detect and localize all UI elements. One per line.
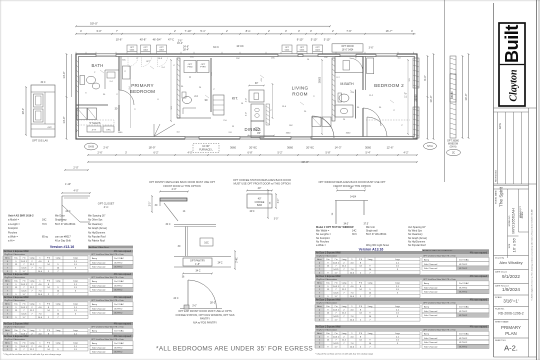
svg-text:Air Door 1 Exposed Wall: Air Door 1 Exposed Wall — [4, 273, 29, 276]
svg-text:W-TH#2: W-TH#2 — [114, 285, 123, 287]
svg-text:OPT Unit/Dmr Main Wall 7/8 x 7: OPT Unit/Dmr Main Wall 7/8 x 7min — [91, 338, 125, 341]
svg-text:1/9/2024: 1/9/2024 — [502, 287, 520, 292]
svg-text:36080: 36080 — [450, 91, 454, 99]
svg-text:W: W — [232, 126, 234, 128]
svg-text:a Hi =: a Hi = — [8, 240, 15, 243]
svg-text:a Model =: a Model = — [8, 219, 20, 222]
clayton built logo box — [499, 23, 525, 106]
furnace dashed box — [193, 144, 219, 153]
svg-text:W-TH#2: W-TH#2 — [459, 292, 468, 294]
svg-text:Chg/Unit Observation: Chg/Unit Observation — [4, 299, 26, 302]
svg-text:BATH: BATH — [91, 63, 103, 68]
svg-text:RD-2006-1296-2: RD-2006-1296-2 — [498, 312, 523, 316]
svg-text:Del / DAC: Del / DAC — [459, 306, 469, 309]
svg-text:2'-6": 2'-6" — [98, 152, 103, 155]
svg-text:W-TH#2: W-TH#2 — [459, 338, 468, 340]
svg-text:Drawn By: Drawn By — [495, 257, 505, 260]
svg-text:SH B: SH B — [88, 146, 94, 149]
svg-text:34'-C: 34'-C — [213, 46, 219, 49]
svg-text:12'-6": 12'-6" — [387, 145, 394, 149]
svg-text:3C: 3C — [452, 152, 455, 155]
svg-text:DINING: DINING — [244, 127, 260, 132]
svg-text:20C: 20C — [271, 58, 275, 60]
svg-text:OPT Unit/Dmr Main Wall 7/8 x 7: OPT Unit/Dmr Main Wall 7/8 x 7min — [91, 276, 125, 279]
svg-text:4'-C: 4'-C — [104, 205, 109, 209]
svg-text:5'-1": 5'-1" — [200, 29, 205, 33]
svg-text:* Chg of the air flow are for: * Chg of the air flow are for ch with ab… — [315, 353, 374, 356]
svg-text:Air Door 1 Exposed Wall: Air Door 1 Exposed Wall — [4, 335, 29, 338]
svg-text:No Lengths =: No Lengths = — [316, 233, 331, 236]
bottom dim left stub — [65, 169, 88, 171]
svg-text:OPT: OPT — [315, 47, 320, 49]
svg-text:16'-0": 16'-0" — [464, 93, 468, 100]
svg-text:OPT Unit/Dmr Main Wall 7/8 x 7: OPT Unit/Dmr Main Wall 7/8 x 7min — [91, 299, 125, 302]
svg-text:a Wide =: a Wide = — [316, 244, 326, 247]
svg-text:a Wide =: a Wide = — [8, 236, 18, 239]
svg-text:14.3 1: 14.3 1 — [21, 284, 28, 286]
opt pwd / opt ptry boxes — [184, 61, 196, 73]
mbath door arc — [363, 108, 381, 126]
svg-text:3'-0": 3'-0" — [274, 219, 279, 221]
bottom wall window symbols — [240, 136, 260, 139]
svg-text:Del / DAC: Del / DAC — [114, 280, 124, 283]
left wall hatch — [76, 60, 79, 63]
kitchen 30in dim — [249, 85, 264, 87]
svg-text:No Footprint: No Footprint — [316, 237, 330, 240]
svg-text:14.3 1: 14.3 1 — [21, 307, 28, 309]
svg-text:Del / DAC: Del / DAC — [114, 257, 124, 260]
svg-text:6'-8": 6'-8" — [248, 152, 253, 155]
bath counter — [105, 70, 119, 89]
svg-text:U: U — [189, 76, 191, 79]
svg-text:Del / DAC: Del / DAC — [459, 259, 469, 262]
svg-text:840: 840 — [519, 211, 524, 218]
svg-text:BEDROOM: BEDROOM — [130, 89, 156, 94]
kitchen range/counter — [251, 104, 264, 121]
svg-text:2'-0": 2'-0" — [150, 202, 152, 207]
svg-text:Sub Charcoal: Sub Charcoal — [92, 307, 106, 310]
svg-text:24'C: 24'C — [218, 262, 223, 265]
left vertical dims — [66, 54, 68, 139]
top dimension row 1 (50 ft overall) — [76, 25, 330, 27]
svg-text:can use #8017: can use #8017 — [55, 236, 71, 239]
svg-text:Chg/Unit Observation: Chg/Unit Observation — [316, 278, 338, 281]
svg-text:Min Width =: Min Width = — [316, 230, 330, 233]
svg-text:8'-C: 8'-C — [246, 29, 251, 33]
svg-text:4'-0": 4'-0" — [188, 152, 193, 155]
mbath/bed2 wall — [362, 57, 364, 91]
svg-text:Chg/Unit Observation: Chg/Unit Observation — [316, 329, 338, 332]
svg-text:KIT.: KIT. — [232, 97, 238, 101]
svg-text:5'-2": 5'-2" — [278, 152, 283, 155]
svg-text:20'-9C: 20'-9C — [249, 145, 257, 149]
opt dutch window detail — [337, 190, 365, 192]
svg-text:36C: 36C — [289, 125, 293, 127]
svg-text:Air Door 1 Exposed Wall: Air Door 1 Exposed Wall — [4, 250, 29, 253]
svg-text:5'-8": 5'-8" — [326, 152, 331, 155]
svg-text:Min Unit: Min Unit — [366, 226, 375, 229]
svg-text:Footprint: Footprint — [8, 227, 18, 230]
svg-text:© 2022 Clayton Homes Inc. This: © 2022 Clayton Homes Inc. This drawing c… — [531, 209, 534, 300]
svg-text:18'-9": 18'-9" — [149, 145, 156, 149]
svg-text:3660: 3660 — [230, 145, 236, 149]
bath/bedroom partition wall — [118, 57, 120, 91]
logo divider — [500, 64, 524, 66]
right table top band (right subtable) — [422, 249, 489, 252]
top wall window symbols — [96, 54, 116, 57]
opt closet detail — [62, 195, 90, 197]
svg-text:30": 30" — [255, 83, 259, 85]
svg-text:(SH A): (SH A) — [450, 145, 457, 148]
svg-text:OPT: OPT — [146, 61, 151, 63]
svg-text:Sub Charcoal: Sub Charcoal — [92, 266, 106, 269]
svg-text:2'-6": 2'-6" — [103, 145, 108, 149]
back door leaf — [154, 124, 175, 137]
model info block — [494, 185, 529, 187]
svg-text:Air Door 1 Exposed Wall: Air Door 1 Exposed Wall — [316, 252, 341, 255]
svg-text:OPT Unit/Dmr Main Wall 7/8 x 7: OPT Unit/Dmr Main Wall 7/8 x 7min — [423, 302, 457, 305]
svg-text:Sub Charcoal: Sub Charcoal — [424, 267, 438, 270]
exterior wall outline (double line) — [76, 54, 417, 139]
title fields — [494, 255, 529, 257]
powder room fixtures — [183, 96, 192, 103]
svg-text:14.3 1: 14.3 1 — [333, 286, 340, 288]
svg-text:*ALL BEDROOMS ARE UNDER 35' FO: *ALL BEDROOMS ARE UNDER 35' FOR EGRESS — [156, 346, 313, 353]
svg-text:47'-C: 47'-C — [168, 38, 174, 42]
svg-text:OPT Unit/Dmr Main Wall 7/8 x 7: OPT Unit/Dmr Main Wall 7/8 x 7min — [91, 253, 125, 256]
svg-text:OPT EXP FRONT DOOR MUST USE w/: OPT EXP FRONT DOOR MUST USE w/ OPTS — [178, 309, 232, 313]
living/mbath hatched wall — [332, 58, 335, 121]
svg-text:No Graph (Arrow): No Graph (Arrow) — [408, 237, 427, 240]
svg-text:Single way: Single way — [55, 219, 67, 222]
svg-text:PLAN: PLAN — [505, 331, 516, 336]
bottom dim row 2 overall — [88, 161, 417, 163]
svg-text:3'-6": 3'-6" — [369, 47, 374, 50]
svg-text:W-TH#2: W-TH#2 — [114, 290, 123, 292]
svg-text:Alex Whatley: Alex Whatley — [499, 260, 522, 265]
hall right wall — [210, 58, 212, 112]
svg-text:3'-0": 3'-0" — [192, 306, 197, 308]
svg-text:6'-2": 6'-2" — [154, 152, 159, 155]
svg-text:REVISIONS: REVISIONS — [495, 170, 497, 182]
svg-text:OPT WINDOW REPLACES BACK DOOR: OPT WINDOW REPLACES BACK DOOR MUST USE O… — [318, 180, 386, 184]
svg-text:3'-0": 3'-0" — [246, 112, 248, 116]
svg-text:PWD: PWD — [187, 67, 193, 69]
svg-text:11'-2": 11'-2" — [406, 92, 408, 98]
svg-text:A-2.: A-2. — [504, 344, 518, 353]
svg-text:OPT: OPT — [300, 47, 305, 49]
opt front door swing detail — [187, 280, 189, 309]
svg-text:OPT: OPT — [201, 64, 206, 66]
svg-text:2'-0": 2'-0" — [73, 165, 78, 169]
scan edge artifacts — [0, 0, 2, 360]
svg-text:Legs: Legs — [73, 343, 78, 345]
svg-text:W-TH#2: W-TH#2 — [459, 264, 468, 266]
title block left border — [493, 3, 495, 357]
svg-text:W-TH#2: W-TH#2 — [114, 262, 123, 264]
svg-text:Version #13.16: Version #13.16 — [50, 245, 74, 249]
svg-text:16' x 56': 16' x 56' — [512, 237, 517, 252]
drawing area right border — [444, 0, 446, 182]
svg-text:ROOM: ROOM — [292, 92, 308, 97]
laundry W/D boxes — [77, 108, 87, 120]
svg-text:OPT COFFEE STATION REPLACES BA: OPT COFFEE STATION REPLACES BACK DOOR — [233, 178, 291, 182]
svg-text:3'-0": 3'-0" — [96, 29, 101, 33]
living left dim line — [272, 84, 274, 118]
bottom-right schedule table — [315, 251, 489, 254]
furnace boxes interior — [312, 117, 321, 127]
svg-text:20'-9C: 20'-9C — [306, 145, 314, 149]
svg-text:Chg/Unit Observation: Chg/Unit Observation — [4, 253, 26, 256]
svg-text:14.21: 14.21 — [333, 343, 339, 345]
opt o/s lav dim — [25, 87, 27, 135]
opt 36080 window strip — [450, 56, 456, 138]
svg-text:1'-10": 1'-10" — [65, 183, 71, 186]
svg-text:Air Door 1 Exposed Wall: Air Door 1 Exposed Wall — [316, 326, 341, 329]
svg-text:36060: 36060 — [320, 76, 322, 83]
svg-text:14'-0": 14'-0" — [62, 71, 66, 78]
svg-text:34.0': 34.0' — [343, 223, 349, 226]
svg-text:MODEL NAME: MODEL NAME — [495, 190, 498, 204]
svg-text:PRIMARY: PRIMARY — [131, 83, 154, 88]
svg-text:Air Flow 1 Max Duct: Air Flow 1 Max Duct — [89, 246, 109, 249]
svg-text:3'-0": 3'-0" — [278, 199, 280, 204]
svg-text:OPT CLOSET: OPT CLOSET — [98, 202, 115, 206]
svg-text:W-TH#2: W-TH#2 — [114, 313, 123, 315]
bath door arc — [119, 90, 134, 105]
left tables top band (right subtable) — [88, 246, 133, 249]
svg-text:Built: Built — [502, 25, 522, 63]
svg-text:BEDROOM 2: BEDROOM 2 — [374, 83, 404, 88]
opt o/s lav cabinet detail — [31, 85, 55, 137]
svg-text:Legs: Legs — [73, 281, 78, 283]
svg-text:37.5': 37.5' — [363, 223, 369, 226]
svg-text:28'-0": 28'-0" — [22, 108, 25, 114]
opt pantry mid detail — [174, 224, 216, 226]
svg-text:PTRY: PTRY — [200, 67, 206, 69]
right end wall windows — [413, 58, 419, 88]
svg-text:16'-0": 16'-0" — [429, 95, 433, 102]
svg-text:3060: 3060 — [365, 145, 371, 149]
svg-text:Sub Charcoal: Sub Charcoal — [424, 314, 438, 317]
svg-text:Del / DAC: Del / DAC — [114, 330, 124, 333]
svg-text:W-TH#2: W-TH#2 — [459, 287, 468, 289]
svg-text:0-424: 0-424 — [350, 196, 357, 199]
svg-text:Min Spacing 16": Min Spacing 16" — [88, 215, 105, 218]
svg-text:Legs: Legs — [73, 304, 78, 306]
svg-text:14.3 1: 14.3 1 — [333, 262, 340, 264]
svg-text:M.BATH: M.BATH — [340, 82, 354, 86]
pantry cabinet — [213, 95, 224, 115]
svg-text:Min Door: Min Door — [55, 215, 65, 218]
svg-text:Chg/Unit Observation: Chg/Unit Observation — [316, 302, 338, 305]
sheet outer border right — [536, 0, 538, 360]
svg-text:OPT: OPT — [130, 47, 135, 49]
svg-text:W-TH#2: W-TH#2 — [114, 352, 123, 354]
svg-text:* Chg of the air flow are for: * Chg of the air flow are for ch with ab… — [3, 353, 62, 356]
svg-text:PRIMARY: PRIMARY — [501, 325, 521, 330]
svg-text:No Porches: No Porches — [316, 240, 330, 243]
svg-text:Sub Charcoal: Sub Charcoal — [424, 345, 438, 348]
svg-text:MUST USE OPT FRONT DOOR w/ THI: MUST USE OPT FRONT DOOR w/ THIS OPTION — [234, 182, 291, 186]
svg-text:No Hip/Dormers: No Hip/Dormers — [88, 231, 106, 234]
small leader lines — [100, 70, 104, 73]
svg-text:Legs: Legs — [395, 333, 400, 335]
svg-text:46'-3/4": 46'-3/4" — [153, 38, 162, 42]
svg-text:Sub Charcoal: Sub Charcoal — [424, 263, 438, 266]
svg-text:PLAN NO.: PLAN NO. — [495, 308, 505, 311]
svg-text:1'-8": 1'-8" — [195, 263, 200, 266]
svg-text:16C: 16C — [204, 241, 209, 244]
interior dim line living/mbath — [321, 60, 323, 134]
svg-text:OPT: OPT — [159, 47, 164, 49]
svg-text:4'-0": 4'-0" — [246, 98, 248, 102]
svg-text:Chg/Unit Observation: Chg/Unit Observation — [316, 255, 338, 258]
mbath inner wall — [355, 90, 357, 119]
svg-text:Sub Charcoal: Sub Charcoal — [92, 346, 106, 349]
SH A oval — [424, 143, 437, 150]
svg-text:14.3 1: 14.3 1 — [333, 309, 340, 311]
mbath entry closet — [335, 57, 363, 73]
svg-text:Air Door 1 Exposed Wall: Air Door 1 Exposed Wall — [316, 299, 341, 302]
bath toilet — [80, 76, 85, 85]
svg-text:24'C: 24'C — [250, 210, 255, 213]
svg-text:56.0' 37 WA 28X24: 56.0' 37 WA 28X24 — [366, 233, 387, 236]
SH B oval — [85, 143, 98, 150]
svg-text:16'-7": 16'-7" — [386, 29, 393, 33]
svg-text:40'-8": 40'-8" — [140, 38, 147, 42]
svg-text:W-TH#2: W-TH#2 — [459, 342, 468, 344]
svg-text:50'-0": 50'-0" — [90, 22, 98, 26]
svg-text:FURNACE L: FURNACE L — [199, 149, 213, 152]
svg-text:Unit # AS SHR 1616-2: Unit # AS SHR 1616-2 — [8, 215, 34, 218]
svg-text:SHEET NO.: SHEET NO. — [495, 340, 507, 342]
svg-text:OPT O/S LAV: OPT O/S LAV — [32, 139, 48, 143]
svg-text:Model # OPT 'DUTCH' WINDOW: Model # OPT 'DUTCH' WINDOW — [316, 226, 354, 229]
svg-text:40 yr Day Shift: 40 yr Day Shift — [55, 240, 71, 243]
svg-text:Sub Charcoal: Sub Charcoal — [424, 310, 438, 313]
svg-text:34 C: 34 C — [165, 223, 170, 226]
svg-text:20C: 20C — [236, 58, 240, 60]
svg-text:Del / DAC: Del / DAC — [114, 342, 124, 345]
svg-text:9'-6": 9'-6" — [423, 75, 427, 81]
bedroom/hall hatched wall — [177, 58, 180, 118]
svg-text:4'-2": 4'-2" — [404, 152, 409, 155]
svg-text:Legs: Legs — [395, 306, 400, 308]
bedroom2 wardrobe — [367, 58, 374, 74]
svg-text:No Clearstory: No Clearstory — [408, 233, 423, 236]
svg-text:Chg/Unit Observation: Chg/Unit Observation — [4, 326, 26, 329]
svg-text:N/A w/ FDS PANTRY: N/A w/ FDS PANTRY — [193, 320, 217, 324]
kitchen lower counter — [251, 121, 264, 138]
svg-text:OPT: OPT — [285, 47, 290, 49]
svg-text:OPT PANTRY REPLACES BACK DOOR: OPT PANTRY REPLACES BACK DOOR MUST USE O… — [149, 180, 215, 184]
top dimension row 2 — [76, 33, 416, 35]
svg-text:Porches: Porches — [8, 231, 18, 234]
front entry door arc — [312, 116, 334, 138]
svg-text:W-TH#2: W-TH#2 — [114, 347, 123, 349]
svg-text:7'-6": 7'-6" — [346, 29, 351, 33]
svg-text:OPT Unit/Dmr Main Wall 7/8 x 7: OPT Unit/Dmr Main Wall 7/8 x 7min — [423, 278, 457, 281]
svg-text:24 C: 24 C — [173, 297, 178, 300]
svg-text:COFFEE STATION, OPT DGS WINDOW: COFFEE STATION, OPT DGS WINDOW, OPT SGS — [176, 313, 235, 317]
svg-text:40'-0": 40'-0" — [301, 160, 309, 164]
svg-text:Chg/Unit Observation: Chg/Unit Observation — [4, 338, 26, 341]
svg-text:4'TY: 4'TY — [92, 129, 97, 131]
svg-text:36060: 36060 — [414, 94, 418, 102]
svg-text:W-TH#2: W-TH#2 — [459, 346, 468, 348]
svg-text:Sub Charcoal: Sub Charcoal — [92, 261, 106, 264]
coffee detail side dim — [267, 190, 269, 218]
svg-text:a Length =: a Length = — [8, 223, 20, 226]
svg-text:16'-0" 0424: 16'-0" 0424 — [342, 49, 354, 51]
svg-text:OPT DOOR: OPT DOOR — [341, 46, 354, 48]
svg-text:No Clearstory: No Clearstory — [88, 223, 103, 226]
svg-text:28'-4": 28'-4" — [183, 49, 189, 52]
svg-text:No Other Sys: No Other Sys — [88, 219, 103, 222]
svg-text:OPT 36080: OPT 36080 — [447, 141, 459, 143]
svg-text:Air Door 1 Exposed Wall: Air Door 1 Exposed Wall — [4, 323, 29, 326]
svg-text:MYD16562AH: MYD16562AH — [511, 208, 516, 234]
svg-text:Legs: Legs — [73, 330, 78, 332]
svg-text:56.0' 37 WA 28X24: 56.0' 37 WA 28X24 — [55, 223, 76, 226]
svg-text:Del / DAC: Del / DAC — [114, 303, 124, 306]
svg-text:Sub Charcoal: Sub Charcoal — [92, 351, 106, 354]
svg-text:No Palette Roof: No Palette Roof — [88, 240, 105, 243]
optional back door dashed swings — [128, 57, 138, 67]
svg-text:14.3 1: 14.3 1 — [333, 336, 340, 338]
svg-text:W-TH#2: W-TH#2 — [459, 268, 468, 270]
svg-text:W-TH#2: W-TH#2 — [114, 308, 123, 310]
svg-text:PANTRY: PANTRY — [200, 317, 210, 321]
svg-text:WINDOW: WINDOW — [448, 143, 459, 145]
svg-text:14C: 14C — [352, 230, 357, 233]
sheet name field — [494, 319, 529, 321]
svg-text:OPT: OPT — [188, 64, 193, 66]
svg-text:9/1/2022: 9/1/2022 — [502, 274, 520, 279]
svg-text:Vert Spacing 16": Vert Spacing 16" — [408, 226, 426, 229]
mbath vanity — [335, 105, 353, 117]
svg-text:14.3 1: 14.3 1 — [21, 346, 28, 348]
svg-text:16C: 16C — [190, 57, 194, 59]
bedroom dresser — [123, 66, 131, 79]
svg-text:5'-4": 5'-4" — [366, 152, 371, 155]
svg-text:W-TH#2: W-TH#2 — [459, 311, 468, 313]
svg-text:OPT Unit/Dmr Main Wall 7/8 x 7: OPT Unit/Dmr Main Wall 7/8 x 7min — [423, 329, 457, 332]
svg-text:Legs: Legs — [395, 259, 400, 261]
bedroom interior dim line — [130, 66, 132, 128]
svg-text:No Popular Roof: No Popular Roof — [88, 236, 106, 239]
svg-text:Legs: Legs — [73, 258, 78, 260]
svg-text:W-TH#2: W-TH#2 — [114, 267, 123, 269]
kitchen side hatch strip — [266, 104, 270, 125]
svg-text:24 C: 24 C — [65, 210, 70, 213]
svg-text:14.3 1: 14.3 1 — [21, 261, 28, 263]
svg-text:14.21: 14.21 — [333, 269, 339, 271]
svg-text:No Popular Roof: No Popular Roof — [408, 244, 426, 247]
top option door boxes left — [127, 45, 137, 52]
svg-text:5'-10": 5'-10" — [311, 38, 318, 42]
right vertical dims — [427, 56, 429, 139]
svg-text:OPC: OPC — [106, 129, 111, 131]
small cabinet row — [87, 126, 101, 132]
interior dim line bedroom2 — [407, 60, 409, 134]
svg-text:14.21: 14.21 — [333, 316, 339, 318]
svg-text:3/16"=1': 3/16"=1' — [503, 298, 518, 303]
svg-text:The Spirit: The Spirit — [499, 186, 504, 207]
svg-text:70 ft: 70 ft — [42, 223, 47, 226]
opt coffee detail — [247, 190, 272, 192]
